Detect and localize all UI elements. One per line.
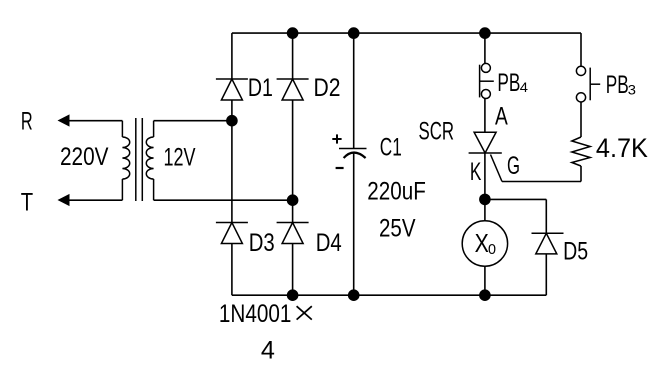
diode D3 [216,223,248,244]
wire PB3 to resistor [580,102,582,137]
wire C1 bottom [353,153,355,295]
SCR U1 thyristor [469,132,502,181]
svg-text:D1: D1 [248,74,273,102]
svg-text:R: R [21,108,33,136]
svg-text:T: T [21,188,33,216]
svg-text:K: K [470,158,482,186]
node AC2 [287,194,299,206]
capacitor C1 [339,149,367,159]
svg-text:220V: 220V [60,143,109,171]
svg-text:12V: 12V [164,143,196,171]
svg-text:25V: 25V [379,214,416,242]
transformer T1 secondary coil [146,121,153,201]
wire resistor bottom [580,166,582,182]
wire secondary bottom to bridge [154,199,293,201]
diode D5 [532,233,564,254]
wire lamp branch to D5 [485,198,546,200]
diode D1 [216,79,248,100]
wire SCR cathode down [484,153,486,221]
lamp X0 [462,221,507,266]
wire T line [60,199,122,201]
diode D2 [277,79,309,100]
svg-text:220uF: 220uF [367,177,426,205]
node AC1 [226,115,238,127]
wire PB4 to SCR anode [484,99,486,132]
node top D2 [287,27,299,39]
resistor R1 4.7K [572,137,590,166]
arrow T [58,194,70,206]
wire secondary top to bridge [154,120,232,122]
wire D2 anode to node B [292,100,294,223]
transformer core [136,118,143,201]
svg-text:4.7K: 4.7K [596,133,648,163]
svg-text:1N4001: 1N4001 [219,300,292,328]
arrow R [58,114,70,126]
svg-text:PB: PB [497,69,520,97]
node K junction [479,194,491,206]
node bottom D4 [287,289,299,301]
pushbutton PB4 [480,63,494,98]
node bottom lamp [479,289,491,301]
svg-text:3: 3 [628,82,636,98]
wire D5 anode to bottom rail [545,254,547,295]
svg-text:D4: D4 [316,229,342,257]
wire left rail above D1 [231,33,233,79]
svg-text:D3: D3 [249,229,275,257]
wire D4 anode to bottom rail [292,244,294,296]
label X0 [475,228,496,258]
wire D3 anode to bottom rail [231,244,233,296]
diode D4 [277,223,309,244]
wire D2 column above [292,33,294,79]
wire gate to resistor [502,181,581,183]
node top SCR [479,27,491,39]
wire D5 column top [545,199,547,233]
label PB4 [497,69,528,97]
transformer T1 primary coil [122,121,129,201]
wire C1 column top [353,33,355,148]
label 1N4001x [219,300,312,328]
wire PB3 column top [580,33,582,67]
svg-text:D5: D5 [563,238,588,266]
node top C1 [348,27,360,39]
svg-text:0: 0 [488,241,496,258]
svg-text:X: X [475,228,489,258]
label PB3 [606,71,636,99]
svg-text:4: 4 [520,79,528,95]
label C1 plus [332,134,341,143]
svg-text:PB: PB [606,71,629,99]
svg-text:4: 4 [261,337,275,365]
wire top rail [232,32,581,34]
label C1 minus [336,167,344,169]
svg-text:C1: C1 [380,134,402,162]
wire SCR column top [484,33,486,64]
node bottom C1 [348,289,360,301]
svg-text:D2: D2 [314,74,341,102]
svg-text:G: G [507,152,520,180]
wire lamp bottom [484,266,486,295]
wire R line [60,120,122,122]
svg-text:A: A [495,103,508,131]
wire D1 anode to node A [231,100,233,223]
wire bottom rail [232,294,546,296]
svg-text:SCR: SCR [419,117,455,145]
pushbutton PB3 [576,66,600,102]
